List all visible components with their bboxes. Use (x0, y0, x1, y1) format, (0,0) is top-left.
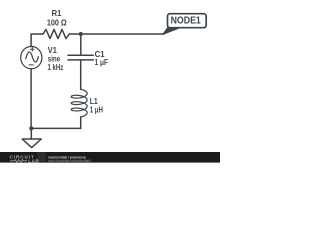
svg-text:100 Ω: 100 Ω (47, 19, 67, 28)
svg-text:http://circuitlab.com/c6rs5ab3: http://circuitlab.com/c6rs5ab3 (48, 159, 91, 163)
voltage source V1 minus sign (29, 64, 33, 66)
svg-text:NODE1: NODE1 (171, 16, 202, 27)
svg-text:1 kHz: 1 kHz (48, 63, 64, 72)
capacitor C1 bottom plate (68, 59, 93, 61)
NODE1 flag tail (163, 28, 180, 35)
wire: resistor to node junction and on to NODE1 tail (69, 33, 163, 35)
voltage source V1 plus sign (30, 47, 34, 51)
resistor R1 (43, 29, 69, 38)
node junction dot at resistor/capacitor/NODE1 (79, 32, 83, 36)
wire: from V1 top up and right to resistor (31, 34, 43, 47)
ground junction dot (29, 126, 33, 130)
inductor L1 coil (71, 89, 87, 117)
footer logo resistor zigzag (10, 160, 27, 163)
ground: stub from junction down (30, 128, 32, 139)
wire: capacitor bottom plate down to inductor top (80, 60, 82, 89)
svg-text:R1: R1 (52, 9, 62, 18)
svg-text:1 μH: 1 μH (90, 106, 103, 115)
wire: bottom rail from ground junction to inductor branch (31, 127, 80, 129)
wire: inductor bottom down to bottom rail (80, 117, 82, 128)
svg-text:1 μF: 1 μF (95, 58, 108, 67)
capacitor C1 top plate (68, 54, 93, 56)
wire: V1 bottom down to ground junction (30, 69, 32, 129)
wire: node junction down to capacitor top plate (80, 34, 82, 55)
voltage source V1 circle (21, 46, 42, 68)
svg-text:LAB: LAB (28, 158, 39, 163)
ground symbol triangle (22, 139, 41, 148)
NODE1 flag box (168, 14, 207, 28)
voltage source V1 sine glyph (26, 52, 39, 62)
footer separator block (37, 152, 45, 163)
footer bar (0, 152, 220, 163)
